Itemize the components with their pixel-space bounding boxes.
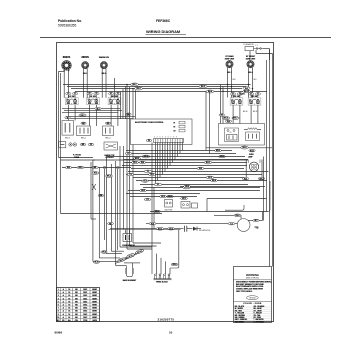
svg-text:BK-4: BK-4 xyxy=(260,177,264,180)
svg-text:18: 18 xyxy=(68,292,70,294)
wire stub S3 down xyxy=(110,105,112,126)
svg-text:GY-3: GY-3 xyxy=(161,196,165,198)
svg-text:BR-2: BR-2 xyxy=(216,150,220,152)
wire SU3 to switch A3 xyxy=(101,69,103,98)
bus wire L1 label xyxy=(131,83,139,86)
bundle wire v2 xyxy=(92,160,94,261)
capacitor feed wire xyxy=(110,228,184,230)
bus wire L1 xyxy=(63,84,251,86)
svg-text:60/69: 60/69 xyxy=(55,330,63,334)
svg-text:GN/Y - GRN/YEL: GN/Y - GRN/YEL xyxy=(235,319,247,321)
svg-text:LATCH SW: LATCH SW xyxy=(165,209,173,212)
wire bus to relay box 2 xyxy=(222,87,224,124)
twist label xyxy=(98,194,104,197)
svg-text:W-2: W-2 xyxy=(245,88,248,90)
wire stub S2 down xyxy=(89,105,91,126)
svg-text:BK-1: BK-1 xyxy=(133,84,137,86)
bus wire L2 label xyxy=(199,85,207,88)
svg-text:8IN/2S: 8IN/2S xyxy=(63,56,71,59)
svg-text:OR-4: OR-4 xyxy=(102,251,106,254)
svg-text:RD-6: RD-6 xyxy=(224,118,228,120)
svg-text:OVEN: OVEN xyxy=(249,154,254,156)
svg-text:OR-5: OR-5 xyxy=(185,186,189,188)
svg-text:W-9: W-9 xyxy=(254,79,257,81)
svg-text:COL: COL xyxy=(75,320,79,322)
svg-text:V - VIOLET: V - VIOLET xyxy=(254,313,262,315)
svg-text:OR-3: OR-3 xyxy=(141,190,145,192)
motor feed top xyxy=(214,214,241,216)
svg-text:W-9: W-9 xyxy=(151,223,154,225)
oven sensor top wire xyxy=(109,229,181,231)
svg-text:BK-3: BK-3 xyxy=(107,176,111,178)
svg-text:SEW1: SEW1 xyxy=(92,311,97,313)
svg-text:RD-7: RD-7 xyxy=(234,118,238,120)
svg-text:OR - ORANGE: OR - ORANGE xyxy=(254,305,265,308)
bundle label 3 xyxy=(101,251,107,254)
terminal block posts xyxy=(154,274,156,279)
diode D1 xyxy=(193,227,197,231)
surface unit SU3 xyxy=(100,62,107,69)
svg-text:SURF UNIT: SURF UNIT xyxy=(246,59,256,61)
svg-text:L1: L1 xyxy=(249,99,251,101)
svg-text:TN-1: TN-1 xyxy=(150,174,154,176)
svg-text:3: 3 xyxy=(58,295,59,297)
svg-text:V-2: V-2 xyxy=(127,153,130,155)
svg-text:GY-2: GY-2 xyxy=(208,177,212,179)
EOC pin drop 9 xyxy=(155,143,157,185)
bundle wire v5 xyxy=(110,164,112,251)
mid band label f xyxy=(167,195,174,198)
svg-text:H1: H1 xyxy=(96,99,98,101)
svg-text:W-8: W-8 xyxy=(141,162,144,164)
EOC pin drop 10 xyxy=(151,143,153,248)
plug M1 wire ovals xyxy=(80,143,86,146)
svg-text:Y-2: Y-2 xyxy=(230,223,233,225)
terminal block feed corner 2 xyxy=(156,254,158,274)
thermostat contact block 2 xyxy=(246,132,260,141)
svg-text:BAKE ELEMENT: BAKE ELEMENT xyxy=(123,279,137,282)
thermostat coil leads xyxy=(244,129,248,131)
svg-text:316250775: 316250775 xyxy=(158,317,175,321)
EOC pin drop 7 xyxy=(159,143,161,178)
right cluster label ovals xyxy=(222,117,229,120)
svg-text:W-6: W-6 xyxy=(199,168,202,170)
svg-text:Publication No.: Publication No. xyxy=(58,19,82,23)
svg-text:TN-2: TN-2 xyxy=(143,181,147,183)
svg-text:SEW1: SEW1 xyxy=(92,292,97,294)
svg-text:CONN: CONN xyxy=(74,157,80,159)
svg-text:Y - YELLOW: Y - YELLOW xyxy=(235,313,245,315)
svg-text:18: 18 xyxy=(68,314,70,316)
wire row A-B label 3 xyxy=(126,113,132,116)
mid wire h3 xyxy=(62,167,131,169)
fan wire label 3 xyxy=(144,170,152,173)
svg-text:H1: H1 xyxy=(257,99,259,101)
fuse block M1 xyxy=(59,142,66,148)
svg-text:SEW1: SEW1 xyxy=(92,298,97,300)
rail wire R4 xyxy=(263,157,265,221)
svg-text:BK-8: BK-8 xyxy=(212,180,216,182)
wire twist mark xyxy=(92,184,96,190)
mid band label b xyxy=(134,157,141,160)
EOC pin drop 9b xyxy=(143,187,260,189)
infinite switch S2 xyxy=(87,92,100,106)
svg-text:RD-5: RD-5 xyxy=(236,215,240,217)
infinite switch S3 xyxy=(108,92,121,106)
EOC pin drop 0b xyxy=(179,143,181,154)
receptacle block B2 xyxy=(77,126,91,136)
svg-text:9: 9 xyxy=(58,314,59,316)
svg-text:DR LATCH SOL: DR LATCH SOL xyxy=(199,229,211,232)
svg-text:REC-1: REC-1 xyxy=(81,137,86,139)
EOC pin drop 2 xyxy=(172,143,174,163)
svg-text:FEF366C: FEF366C xyxy=(156,19,171,23)
svg-text:TERM. BLOCK: TERM. BLOCK xyxy=(156,281,168,283)
wire P40 to rails xyxy=(263,48,270,50)
wire SU1 to switch A1 xyxy=(63,71,65,97)
svg-text:18: 18 xyxy=(68,289,70,291)
svg-text:PK - PINK: PK - PINK xyxy=(254,317,262,319)
bus junction dots xyxy=(227,84,228,85)
svg-text:H1: H1 xyxy=(74,99,76,101)
svg-text:GY-1: GY-1 xyxy=(182,198,186,200)
rail wire R1 xyxy=(266,60,268,212)
svg-text:BK - BLACK: BK - BLACK xyxy=(235,305,245,308)
svg-text:1 2: 1 2 xyxy=(256,45,258,47)
EOC pin drop 0a xyxy=(182,143,184,151)
svg-text:RD-2: RD-2 xyxy=(79,167,83,169)
terminal block feed corner 3 xyxy=(160,258,162,274)
wire SU2 to switch A2 xyxy=(83,69,85,98)
svg-text:W-10: W-10 xyxy=(95,262,99,264)
svg-text:W-3: W-3 xyxy=(227,121,230,123)
fan wire h y193.5 xyxy=(126,193,200,195)
svg-text:W-7: W-7 xyxy=(254,220,257,222)
svg-text:RD - RED: RD - RED xyxy=(235,310,243,312)
svg-text:P: P xyxy=(71,104,72,106)
svg-text:8IN/2S: 8IN/2S xyxy=(81,56,89,59)
svg-text:H1: H1 xyxy=(239,99,241,101)
fan wire label 5 xyxy=(183,186,191,189)
surface unit SU1 xyxy=(62,61,72,71)
svg-text:SEW1: SEW1 xyxy=(92,289,97,291)
oven sensor stubs xyxy=(125,230,127,234)
door lock switch xyxy=(181,202,190,209)
wire to EOC top 1 xyxy=(120,91,122,119)
svg-text:18: 18 xyxy=(68,311,70,313)
EOC pin drop 11 xyxy=(153,188,155,229)
electronic oven control box xyxy=(131,119,193,145)
mid wire h2 xyxy=(93,159,248,161)
bundle wire v3 xyxy=(98,168,100,258)
wire row A-B label xyxy=(79,114,86,117)
svg-text:5995386355: 5995386355 xyxy=(58,24,77,28)
svg-text:Y-1: Y-1 xyxy=(147,171,150,173)
svg-text:5: 5 xyxy=(58,301,59,303)
svg-text:7: 7 xyxy=(58,308,59,310)
svg-text:BU-1: BU-1 xyxy=(206,162,210,164)
oven light holder xyxy=(245,160,247,178)
wire SU5 drops xyxy=(248,68,250,98)
bake element xyxy=(127,266,133,277)
surface unit SU2 xyxy=(82,62,89,69)
connector P40 contact marks xyxy=(254,48,264,50)
svg-text:SEW1: SEW1 xyxy=(92,308,97,310)
svg-text:GY-4: GY-4 xyxy=(169,227,173,230)
connector P40 box xyxy=(245,46,254,50)
EOC component 2 xyxy=(179,125,185,128)
wire P40 to right-rear surface unit xyxy=(249,51,251,61)
fan wire label 2 xyxy=(204,161,212,164)
svg-text:4: 4 xyxy=(58,297,59,300)
wire row A-B h1 xyxy=(62,108,120,110)
svg-text:P: P xyxy=(236,104,237,106)
svg-text:SURF UNIT: SURF UNIT xyxy=(225,59,235,61)
terminal block feed label xyxy=(171,263,178,266)
svg-text:BK-9: BK-9 xyxy=(243,147,247,149)
bundle wire v8 xyxy=(123,146,125,230)
svg-text:SEW1: SEW1 xyxy=(92,314,97,316)
EOC pin drop 1 xyxy=(174,143,176,160)
receptacle block B3 xyxy=(103,126,114,136)
capacitor output wire xyxy=(187,228,193,230)
svg-text:L1: L1 xyxy=(109,99,111,101)
svg-text:W-4: W-4 xyxy=(94,172,97,175)
fan wire label 1 xyxy=(142,155,150,158)
svg-text:WARM ZN: WARM ZN xyxy=(99,56,109,59)
svg-text:V-3: V-3 xyxy=(146,199,149,201)
svg-text:SEW1: SEW1 xyxy=(92,295,97,297)
svg-text:18: 18 xyxy=(68,301,70,303)
bus wire L3 xyxy=(71,88,242,90)
svg-text:L2 H2: L2 H2 xyxy=(241,94,245,96)
bus wire L4 xyxy=(75,91,267,93)
surface unit SU5 xyxy=(247,61,254,68)
terminal block feed corner 4 xyxy=(165,261,167,274)
svg-text:105C SEW-1: 105C SEW-1 xyxy=(235,321,244,323)
svg-text:W-8: W-8 xyxy=(233,79,236,81)
svg-text:RD-4: RD-4 xyxy=(208,90,212,93)
thermostat coil xyxy=(248,128,258,130)
bus wire L3 label xyxy=(135,87,143,90)
svg-text:P3: P3 xyxy=(148,140,150,142)
EOC pin drop 5 xyxy=(164,143,166,172)
wire bus drop left 2 xyxy=(129,87,131,246)
svg-text:WARNING: WARNING xyxy=(246,273,259,277)
wire stub S1 down xyxy=(67,105,69,121)
svg-text:8: 8 xyxy=(58,311,59,313)
motor lead right xyxy=(248,220,263,222)
wire bus drop to switch A3 xyxy=(114,78,116,98)
svg-text:L1: L1 xyxy=(67,99,69,101)
svg-text:BU - BLUE: BU - BLUE xyxy=(254,308,262,310)
wire bus down mid 2 xyxy=(209,91,211,153)
infinite switch S1 xyxy=(65,92,78,106)
bundle label 1 xyxy=(92,172,99,175)
convection motor xyxy=(237,219,250,232)
mid band label e xyxy=(142,180,149,183)
wire bus drop left 1 xyxy=(126,85,128,250)
svg-text:BK-8: BK-8 xyxy=(248,72,254,74)
terminal block base xyxy=(154,278,172,280)
svg-text:W-1: W-1 xyxy=(96,108,99,110)
mid band label g xyxy=(215,149,222,152)
bundle wire v7 xyxy=(119,146,121,247)
wire bus drop left 4 xyxy=(135,91,137,119)
EOC component 1 xyxy=(179,121,185,124)
rail wire R2 xyxy=(269,49,271,267)
fan wire label 11 xyxy=(160,195,167,198)
surface unit SU4 xyxy=(226,61,233,68)
ribbon label left xyxy=(117,257,126,263)
svg-text:2: 2 xyxy=(58,292,59,294)
wire left drop elbow xyxy=(59,157,93,159)
wire SU1 left drop 2 xyxy=(60,73,62,214)
wire bus down mid 1 xyxy=(205,91,207,150)
oven light contacts xyxy=(252,164,254,166)
diagram border frame xyxy=(57,43,274,322)
EOC pin drop 6 xyxy=(162,143,164,175)
svg-text:18: 18 xyxy=(68,308,70,310)
bundle wire v1 xyxy=(90,162,92,219)
fan wire label 10 xyxy=(140,189,147,192)
fan wire label 9 xyxy=(211,179,218,182)
capacitor C1 xyxy=(184,226,186,232)
oven light label xyxy=(249,149,255,152)
right switch top labels xyxy=(243,87,250,90)
svg-text:RF SW: RF SW xyxy=(90,96,96,98)
svg-text:W-11: W-11 xyxy=(250,150,254,152)
svg-text:(RISK OF SHOCK): (RISK OF SHOCK) xyxy=(246,277,259,279)
svg-text:GN - GREEN: GN - GREEN xyxy=(235,317,245,319)
door latch switch xyxy=(165,200,173,208)
svg-text:COLOR - CODE: COLOR - CODE xyxy=(243,303,262,305)
svg-text:GOZ30: GOZ30 xyxy=(249,298,255,300)
motor feed corner wire xyxy=(225,205,244,210)
svg-text:REC-2: REC-2 xyxy=(105,137,110,139)
svg-text:BK-10: BK-10 xyxy=(243,111,248,113)
surface unit SU1 terminals xyxy=(64,70,65,71)
mid band label d xyxy=(127,173,133,176)
ribbon label right xyxy=(135,249,144,255)
row B wire labels xyxy=(65,117,70,120)
svg-text:P: P xyxy=(114,104,115,106)
mid wire label left xyxy=(92,166,98,169)
header rule xyxy=(40,37,331,39)
EOC pin drop 3 xyxy=(169,143,171,166)
mid wire h1 xyxy=(106,156,245,158)
oven light lead right xyxy=(258,177,264,180)
svg-text:SEW1: SEW1 xyxy=(92,317,97,319)
mid band label c xyxy=(139,161,145,164)
svg-text:P 40-A1 W: P 40-A1 W xyxy=(244,43,254,46)
door cluster rail wire xyxy=(207,198,267,200)
svg-text:F2: F2 xyxy=(174,126,176,128)
thermostat label xyxy=(206,147,272,149)
oven light lead left xyxy=(242,177,248,180)
bundle label 4 xyxy=(93,261,99,264)
wire S4 drops xyxy=(232,105,234,124)
EOC component 3 xyxy=(179,129,185,132)
lockout switch M2 xyxy=(104,142,118,150)
svg-text:V-1: V-1 xyxy=(157,184,160,186)
svg-text:LF SW: LF SW xyxy=(69,96,75,98)
oven sensor body xyxy=(123,234,132,242)
svg-text:ELECTRONIC OVEN CONTROL: ELECTRONIC OVEN CONTROL xyxy=(135,122,165,124)
svg-text:L1: L1 xyxy=(231,99,233,101)
svg-text:W-5: W-5 xyxy=(244,178,247,180)
wire to EOC top 3 xyxy=(125,87,127,119)
latch wire xyxy=(180,186,265,188)
wire bus drop label xyxy=(219,114,225,117)
svg-text:1: 1 xyxy=(58,289,59,291)
bundle wire v4 xyxy=(105,157,107,254)
infinite switch S5 xyxy=(248,92,261,106)
door lock labels xyxy=(181,197,188,200)
svg-text:WIRING DIAGRAM: WIRING DIAGRAM xyxy=(146,29,180,34)
ribbon label mid xyxy=(126,253,135,259)
wire ribbon diagonal xyxy=(115,256,134,264)
wire row A-B h5 xyxy=(70,118,133,120)
motor feed left xyxy=(146,223,237,225)
wire to EOC top 2 xyxy=(122,89,124,119)
wire bus drop left 3 xyxy=(132,89,134,119)
wire SU1 left drop xyxy=(58,72,60,158)
svg-text:18: 18 xyxy=(68,298,70,300)
svg-text:BR - BROWN: BR - BROWN xyxy=(235,315,246,317)
svg-text:P: P xyxy=(93,104,94,106)
wire left drop elbow 2 xyxy=(61,159,96,161)
svg-text:18: 18 xyxy=(68,295,70,297)
EOC pin drop 8 xyxy=(157,143,159,181)
svg-text:BK-12: BK-12 xyxy=(244,91,249,93)
svg-text:18: 18 xyxy=(68,304,70,306)
loop wire bottom xyxy=(154,210,161,213)
wire bus to relay box 1 xyxy=(220,85,222,124)
svg-text:K1: K1 xyxy=(230,132,232,134)
wire row A-B h4 xyxy=(66,116,135,118)
svg-text:SEW1: SEW1 xyxy=(92,301,97,303)
EOC pin strip xyxy=(154,139,184,143)
svg-text:P: P xyxy=(254,104,255,106)
wire row A-B h2 xyxy=(64,110,122,112)
junction node J1 xyxy=(103,166,105,168)
mid band label a xyxy=(125,152,131,155)
svg-text:RR SW: RR SW xyxy=(234,96,240,98)
mid band label h xyxy=(219,155,226,158)
svg-text:105C TYPE SEW-1.: 105C TYPE SEW-1. xyxy=(236,291,253,293)
thermostat contact block xyxy=(225,128,239,142)
svg-text:F1: F1 xyxy=(174,122,176,124)
svg-text:IND LT: IND LT xyxy=(65,137,70,139)
svg-text:W-2: W-2 xyxy=(67,167,70,169)
svg-text:RF SW: RF SW xyxy=(252,96,258,98)
terminal block feed corner 1 xyxy=(151,247,153,274)
svg-text:RD-3: RD-3 xyxy=(137,88,141,90)
plug M1 contacts xyxy=(69,143,72,146)
wire S5 drops xyxy=(250,105,252,124)
EOC pin drop 0c xyxy=(177,143,179,157)
svg-text:BK-2: BK-2 xyxy=(201,86,205,88)
svg-text:SEW1: SEW1 xyxy=(92,304,97,306)
svg-text:*TB: *TB xyxy=(255,228,259,230)
rail wire R3 xyxy=(272,60,274,267)
svg-text:WZ SW: WZ SW xyxy=(111,96,117,98)
svg-text:W - WHITE: W - WHITE xyxy=(235,308,243,310)
bundle label 2 xyxy=(106,175,113,178)
EOC pin drop 4 xyxy=(167,143,169,169)
svg-text:LOCKOUT: LOCKOUT xyxy=(106,157,115,159)
